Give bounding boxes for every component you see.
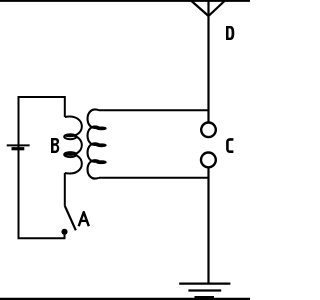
wire: secondary bottom to spark-gap line [99,177,209,179]
label D [226,26,234,40]
bottom border rule [0,298,250,300]
label A [79,212,89,226]
wire: spark gap down to ground [207,167,209,284]
label C [227,139,233,151]
ground [179,284,230,298]
wire: secondary top to antenna line [99,109,209,111]
wire: battery loop (top wire, left side, bottom wire) [19,97,65,238]
spark ball bottom (C) [201,153,216,168]
battery cell: short thick plate [12,147,25,150]
wire: antenna lead down to spark gap [207,1,209,123]
top border rule [0,0,250,2]
transformer secondary coil (right winding) [88,110,106,179]
label B [51,138,59,153]
key contact dot [61,229,67,235]
antenna D (aerial arms) [192,1,225,16]
spark ball top (C) [201,123,216,138]
wire: primary coil to key [64,173,66,206]
transformer primary coil B (left winding) [64,117,82,174]
key (switch) A blade [65,206,76,231]
battery cell: long plate [7,144,30,146]
